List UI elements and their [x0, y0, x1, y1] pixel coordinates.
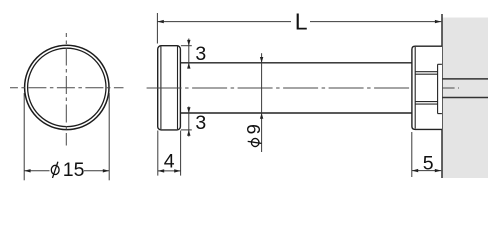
- phi15 dimension line: [24, 170, 109, 172]
- wall: [442, 18, 488, 179]
- flange interior lines bottom pair: [415, 101, 437, 103]
- phi15 label: [51, 159, 84, 181]
- side view head outer: [158, 46, 181, 130]
- flange outline: [412, 46, 442, 129]
- phi9 label (rotated): [243, 124, 264, 146]
- bottom 3 arrow upper: [187, 107, 190, 113]
- circle horizontal centerline: [10, 87, 124, 89]
- 4 arrow left: [158, 169, 164, 172]
- bottom 3 extension line: [181, 129, 192, 131]
- 4 extension line left: [157, 131, 159, 176]
- top 3 dimension line: [188, 39, 190, 69]
- flange inner vertical line: [437, 64, 439, 113]
- L dimension line: [157, 21, 441, 23]
- side view head inner line left: [160, 46, 162, 129]
- 4 extension line right: [180, 131, 182, 176]
- svg-text:15: 15: [63, 159, 85, 181]
- svg-text:5: 5: [423, 152, 434, 174]
- front view outer circle: [25, 45, 109, 129]
- phi15 extension line left: [23, 93, 25, 180]
- bottom 3 dimension line: [188, 107, 190, 137]
- side view centerline: [147, 87, 459, 89]
- flange interior lines top pair: [415, 71, 437, 73]
- side view head inner line right: [177, 46, 179, 129]
- phi9 dimension line: [261, 53, 263, 152]
- front view inner circle: [28, 48, 106, 126]
- L arrow right: [435, 20, 441, 23]
- wall left edge: [441, 14, 443, 178]
- shaft bottom line: [180, 112, 412, 114]
- phi15 arrow left: [24, 169, 30, 172]
- 5 arrow right: [435, 169, 441, 172]
- rod in wall: [442, 79, 488, 98]
- shaft top line: [180, 62, 412, 64]
- phi15 arrow right: [103, 169, 109, 172]
- top 3 arrow upper: [187, 40, 190, 46]
- 4 arrow right: [174, 169, 180, 172]
- svg-text:3: 3: [195, 43, 206, 65]
- svg-text:3: 3: [195, 112, 206, 134]
- circle vertical centerline: [65, 33, 67, 146]
- svg-text:L: L: [295, 9, 308, 35]
- 4 dimension line: [158, 170, 181, 172]
- top 3 arrow lower: [187, 63, 190, 69]
- 5 extension line left: [411, 132, 413, 177]
- L arrow left: [157, 20, 163, 23]
- phi15 extension line right: [108, 93, 110, 180]
- top 3 extension line: [181, 45, 192, 47]
- L extension line left: [156, 13, 158, 44]
- 5 dimension line: [412, 170, 441, 172]
- 5 arrow left: [412, 169, 418, 172]
- svg-text:4: 4: [164, 151, 175, 173]
- phi9 arrow lower: [260, 113, 263, 119]
- flange rim line: [414, 47, 416, 129]
- svg-text:9: 9: [243, 124, 264, 134]
- flange step top: [438, 63, 442, 65]
- phi9 arrow upper: [260, 57, 263, 63]
- bottom 3 arrow lower: [187, 130, 190, 136]
- flange step bottom: [438, 113, 442, 115]
